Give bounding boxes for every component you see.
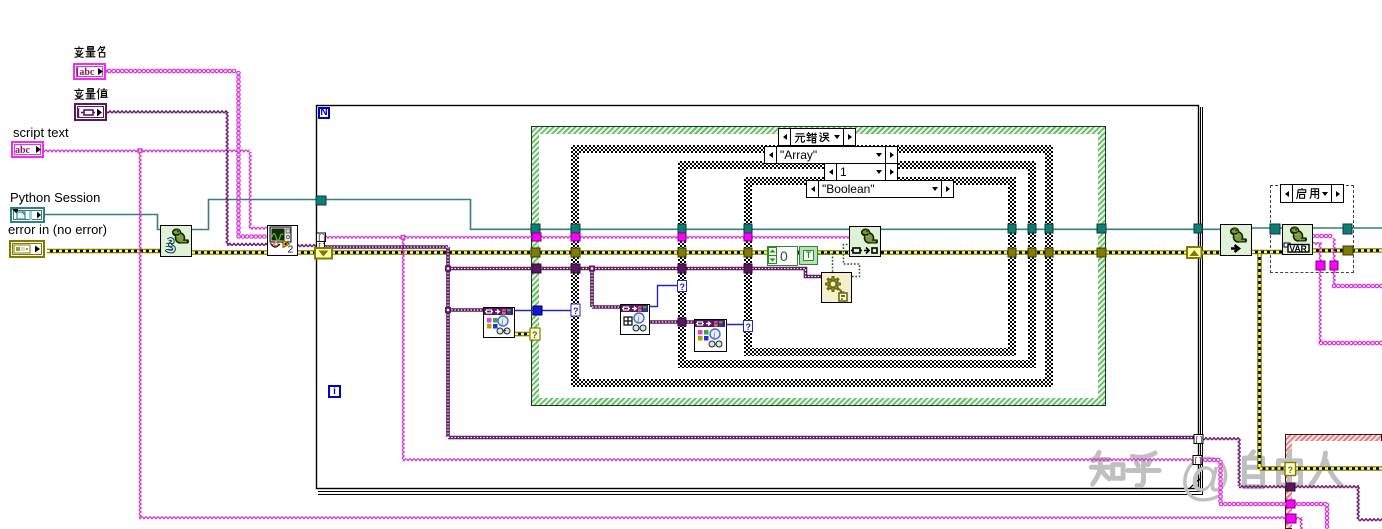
svg-text:abc: abc (15, 145, 31, 156)
svg-text:2: 2 (288, 244, 294, 255)
svg-text:?: ? (532, 330, 538, 340)
svg-text:[]: [] (318, 235, 326, 243)
svg-text:VAR: VAR (1290, 244, 1307, 254)
svg-text:?: ? (746, 322, 752, 332)
svg-text:[abc: [abc (76, 67, 95, 78)
svg-text:?: ? (1288, 465, 1294, 475)
svg-text:?: ? (573, 306, 579, 316)
svg-text:[]: [] (1195, 437, 1203, 445)
svg-text:0: 0 (780, 248, 788, 264)
svg-text:[]: [] (1194, 458, 1202, 466)
svg-text:[: [ (77, 107, 81, 119)
svg-text:?: ? (680, 282, 686, 292)
